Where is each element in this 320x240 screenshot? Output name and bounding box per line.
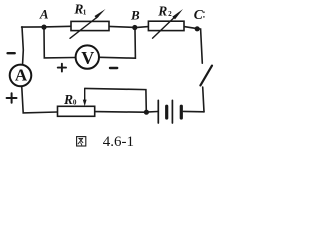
svg-text:1: 1: [83, 9, 87, 17]
resistor R1 wiper arrow: [70, 9, 106, 38]
svg-text:A: A: [39, 7, 49, 22]
battery cell 2 long plate: [171, 100, 173, 123]
voltmeter polarity minus: [110, 67, 117, 69]
battery cell 1 short thick plate: [165, 106, 168, 118]
node C: [195, 26, 200, 31]
node C label colon artifact: [203, 11, 205, 17]
wire: R0 left end to ammeter bottom: [22, 87, 58, 113]
wire: R2 right to node C: [184, 27, 197, 29]
svg-text:2: 2: [168, 10, 172, 18]
svg-text:R: R: [157, 3, 167, 18]
resistor R0 wiper arrow (pointing down onto body): [83, 88, 87, 106]
caption character TU (figure) drawn as vector: [77, 137, 86, 146]
wire: voltmeter right lead up to node B branch: [100, 30, 135, 58]
wire: top-left vertical (top rail corner down to ammeter top): [22, 27, 23, 64]
svg-text:R: R: [63, 92, 73, 107]
wire: junction node up and left to R0 wiper: [85, 88, 147, 112]
wire: node B to R2 left: [137, 26, 148, 29]
wire: top rail corner to R1 left (through node A): [22, 25, 71, 28]
node B: [132, 25, 137, 30]
voltmeter V: [76, 45, 99, 68]
svg-text:B: B: [130, 7, 140, 22]
svg-text:V: V: [81, 48, 94, 68]
resistor R1 (rheostat body): [71, 21, 109, 30]
resistor R0 (rheostat body): [58, 106, 95, 116]
ammeter A: [10, 65, 32, 87]
wire: voltmeter left lead up to node A branch: [44, 29, 75, 58]
wire: node C stub and right vertical down to switch top contact: [197, 29, 202, 63]
svg-text:0: 0: [73, 99, 77, 107]
svg-text:A: A: [15, 65, 28, 84]
resistor R2 wiper arrow: [153, 9, 184, 38]
ammeter polarity plus: [7, 93, 17, 103]
battery cell 1 long plate: [157, 100, 159, 123]
svg-text:4.6-1: 4.6-1: [103, 134, 134, 150]
battery cell 2 short thick plate: [180, 106, 183, 118]
switch S (open knife switch blade): [200, 66, 212, 86]
wire: R0 right end to junction node: [95, 111, 144, 114]
voltmeter polarity plus: [58, 64, 66, 72]
svg-text:C: C: [194, 7, 204, 22]
resistor R2 (rheostat body): [148, 21, 184, 30]
ammeter polarity minus: [8, 52, 15, 54]
wire: R1 right to node B: [109, 26, 135, 27]
wire: switch bottom contact down to bottom-right corner: [203, 87, 204, 112]
wire: bottom-right corner to battery right plate: [183, 110, 204, 112]
node A: [41, 25, 46, 30]
wire: battery left plate to junction node: [146, 111, 157, 114]
junction node (battery / R0 / wiper): [144, 110, 149, 115]
